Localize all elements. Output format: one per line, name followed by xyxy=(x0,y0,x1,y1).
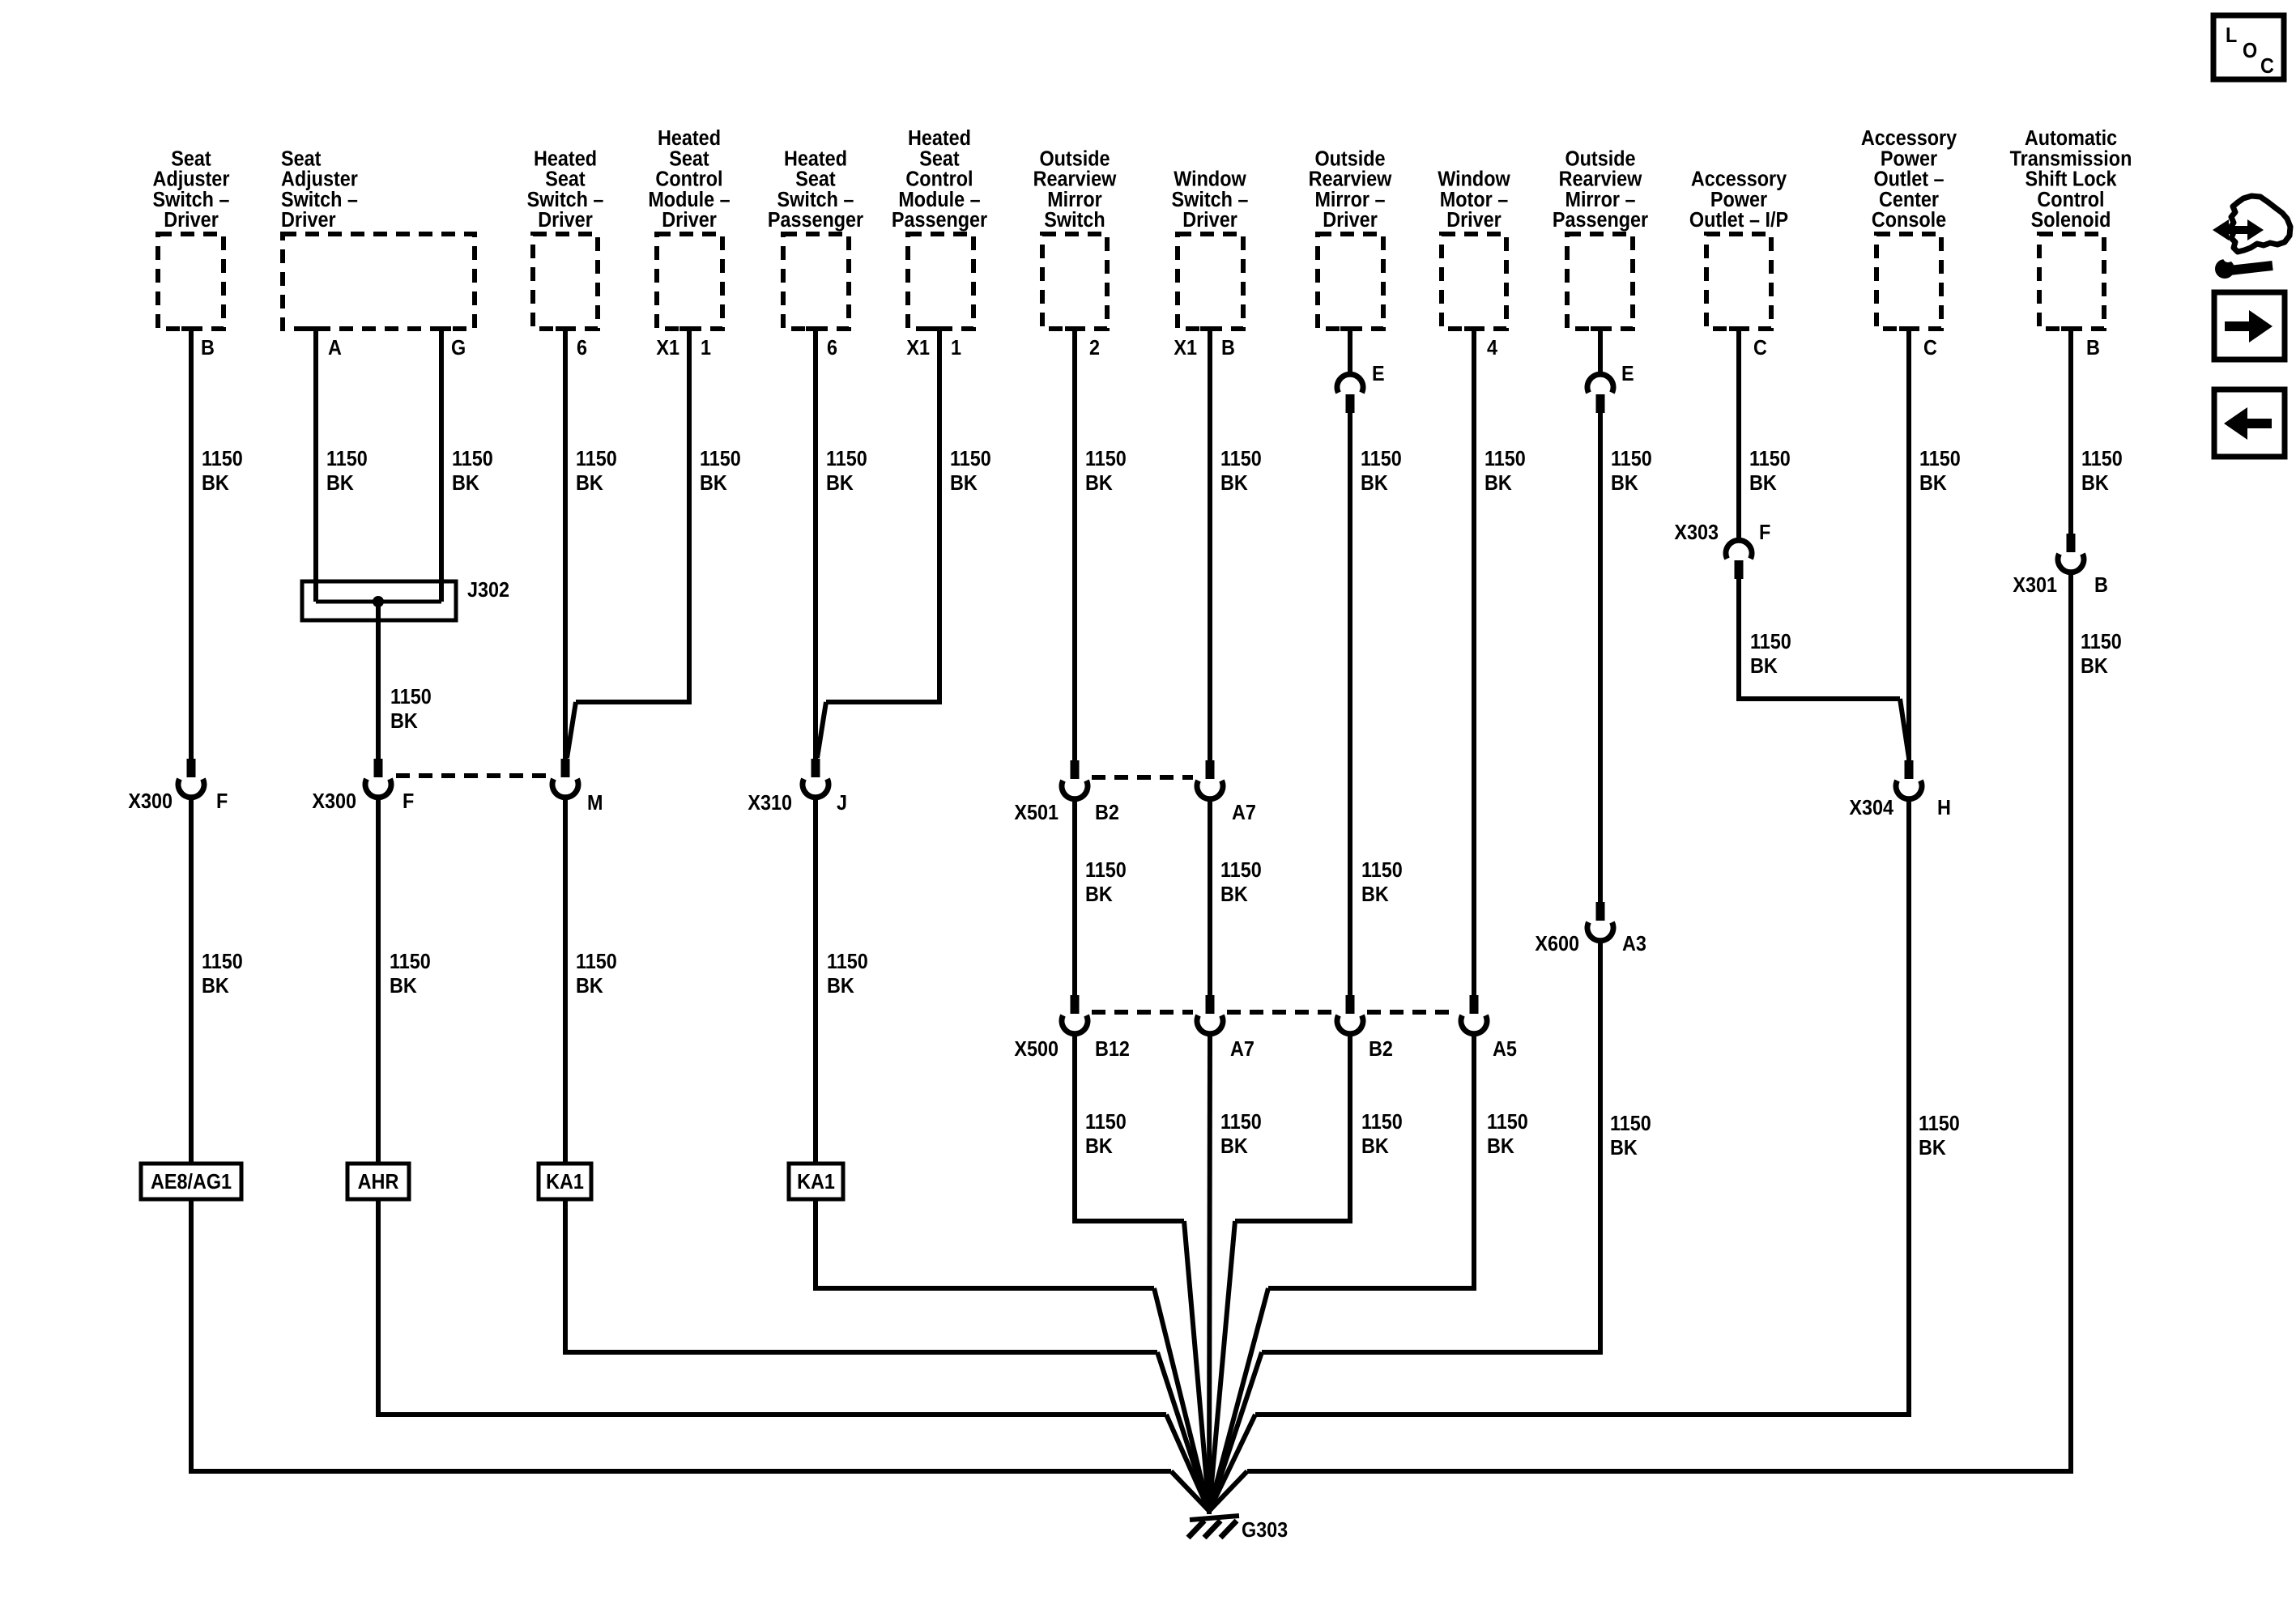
component title: Seat Adjuster Switch – Driver xyxy=(153,147,230,232)
svg-text:1150: 1150 xyxy=(1085,1111,1127,1134)
svg-text:Transmission: Transmission xyxy=(2010,147,2132,170)
svg-text:BK: BK xyxy=(1220,883,1248,906)
component title: Heated Seat Control Module – Passenger xyxy=(892,127,988,232)
connector X300 pin F (driver seat adjuster B) xyxy=(187,759,196,777)
svg-text:Motor –: Motor – xyxy=(1440,189,1508,211)
wire: L4 left diagonal to G303 apex xyxy=(1171,1471,1209,1511)
legend icon: door outline xyxy=(2230,196,2290,252)
svg-text:Switch –: Switch – xyxy=(527,189,604,211)
svg-text:BK: BK xyxy=(700,472,727,495)
wire: L2 horizontal left segment xyxy=(563,1350,1157,1355)
svg-text:X501: X501 xyxy=(1014,802,1059,824)
legend icon: double-headed arrow xyxy=(2213,219,2264,240)
wire: X300 F down to AE8/AG1 xyxy=(189,797,194,1165)
svg-text:C: C xyxy=(1753,337,1767,360)
svg-text:1150: 1150 xyxy=(1220,1111,1262,1134)
ground G303 hatch 1 xyxy=(1188,1521,1204,1538)
Heated Seat Control Module - Passenger (box) xyxy=(908,234,973,329)
connector X301 pin B xyxy=(2067,534,2076,552)
connector X300 pin F (seat adjuster A/G) xyxy=(374,759,383,777)
wire: Window Switch Driver pin B down to X501 xyxy=(1208,328,1212,761)
svg-text:O: O xyxy=(2243,40,2257,62)
splice J302 junction dot xyxy=(373,596,384,607)
svg-text:1150: 1150 xyxy=(1749,448,1791,470)
Outside Rearview Mirror - Passenger (box) xyxy=(1567,234,1633,329)
component title: Seat Adjuster Switch – Driver xyxy=(281,147,358,232)
svg-text:BK: BK xyxy=(1485,472,1512,495)
svg-text:BK: BK xyxy=(1085,472,1113,495)
wire: HSCM Driver horizontal jog xyxy=(576,700,692,704)
svg-text:Adjuster: Adjuster xyxy=(281,168,358,191)
wire: E down to X500 B2 xyxy=(1348,406,1352,996)
svg-text:Outside: Outside xyxy=(1314,147,1385,170)
wire: HSCM Driver diagonal into M connector xyxy=(567,702,576,758)
inline harness label AE8/AG1 xyxy=(141,1164,241,1199)
svg-text:1150: 1150 xyxy=(390,951,431,973)
svg-text:Outside: Outside xyxy=(1565,147,1635,170)
svg-text:X600: X600 xyxy=(1535,933,1579,955)
wire: AE8/AG1 down to L4 corner xyxy=(189,1199,194,1471)
legend icon: wrench head xyxy=(2215,259,2234,279)
svg-text:Window: Window xyxy=(1174,168,1246,191)
svg-text:B2: B2 xyxy=(1369,1038,1393,1061)
wire: L4 right diagonal to G303 apex xyxy=(1209,1471,1247,1511)
svg-text:BK: BK xyxy=(827,975,854,998)
wire: X500 B2 down to staple corner xyxy=(1348,1033,1352,1221)
svg-text:BK: BK xyxy=(576,472,603,495)
svg-text:6: 6 xyxy=(827,337,837,360)
svg-text:BK: BK xyxy=(1361,472,1388,495)
wire: L1 horizontal left segment xyxy=(813,1286,1154,1291)
svg-text:Switch –: Switch – xyxy=(153,189,230,211)
component title: Outside Rearview Mirror – Passenger xyxy=(1553,147,1649,232)
svg-text:1150: 1150 xyxy=(326,448,368,470)
svg-text:Automatic: Automatic xyxy=(2025,127,2118,150)
wire: X303 branch diagonal into X304 xyxy=(1900,699,1909,758)
component title: Heated Seat Switch – Passenger xyxy=(768,147,864,232)
svg-text:Driver: Driver xyxy=(538,209,593,232)
svg-text:Accessory: Accessory xyxy=(1691,168,1787,191)
svg-text:Switch: Switch xyxy=(1044,209,1105,232)
svg-text:Solenoid: Solenoid xyxy=(2031,209,2111,232)
dashed connector mating line X500 A7..B2 xyxy=(1227,1010,1333,1015)
svg-text:G: G xyxy=(451,337,466,360)
svg-text:Seat: Seat xyxy=(545,168,585,191)
splice J302 internal bar xyxy=(316,600,441,604)
svg-text:BK: BK xyxy=(2081,472,2109,495)
component title: Accessory Power Outlet – I/P xyxy=(1689,168,1788,232)
wire: HSCM Passenger diagonal into X310 connector xyxy=(817,702,826,758)
wire: Outside Rearview Mirror Switch pin 2 down to X501 xyxy=(1072,328,1077,761)
svg-text:Rearview: Rearview xyxy=(1309,168,1392,191)
connector X310 pin J xyxy=(811,759,820,777)
svg-text:BK: BK xyxy=(202,975,229,998)
svg-text:E: E xyxy=(1372,363,1385,385)
back-reference arrow box xyxy=(2214,389,2285,457)
svg-text:Console: Console xyxy=(1872,209,1946,232)
svg-text:BK: BK xyxy=(1361,1135,1389,1158)
forward-reference arrow xyxy=(2225,310,2273,343)
svg-text:BK: BK xyxy=(390,975,417,998)
component title: Automatic Transmission Shift Lock Control Solenoid xyxy=(2010,127,2132,232)
svg-text:BK: BK xyxy=(1220,472,1248,495)
splice J302 (box) xyxy=(302,581,456,620)
svg-text:C: C xyxy=(2260,55,2274,78)
svg-text:BK: BK xyxy=(2081,655,2108,678)
Accessory Power Outlet - I/P (box) xyxy=(1706,234,1771,329)
svg-text:BK: BK xyxy=(1749,472,1777,495)
inline harness label AHR xyxy=(347,1164,409,1199)
component title: Window Switch – Driver xyxy=(1172,168,1249,232)
svg-text:1150: 1150 xyxy=(1610,1113,1651,1135)
svg-text:Mirror –: Mirror – xyxy=(1314,189,1385,211)
wire: L2 horizontal right segment xyxy=(1262,1350,1603,1355)
svg-text:Control: Control xyxy=(2037,189,2104,211)
svg-text:6: 6 xyxy=(577,337,587,360)
wire: X501 B2 down to X500 B12 xyxy=(1072,798,1077,996)
svg-text:Window: Window xyxy=(1438,168,1510,191)
wire: staple left diagonal to G303 apex xyxy=(1184,1221,1209,1511)
svg-text:Seat: Seat xyxy=(919,147,959,170)
wire: E down to X600 xyxy=(1598,406,1603,903)
wire: L2 right diagonal to G303 apex xyxy=(1209,1352,1262,1511)
component title: Accessory Power Outlet – Center Console xyxy=(1861,127,1957,232)
svg-text:BK: BK xyxy=(1610,1137,1638,1160)
wire: KA1 down to L2 corner xyxy=(563,1199,568,1352)
svg-text:Seat: Seat xyxy=(795,168,835,191)
svg-text:BK: BK xyxy=(326,472,354,495)
svg-text:F: F xyxy=(216,790,228,813)
svg-text:BK: BK xyxy=(1919,1137,1946,1160)
svg-text:Mirror: Mirror xyxy=(1047,189,1102,211)
component title: Outside Rearview Mirror Switch xyxy=(1033,147,1117,232)
svg-text:Adjuster: Adjuster xyxy=(153,168,230,191)
svg-text:BK: BK xyxy=(1487,1135,1514,1158)
svg-text:Switch –: Switch – xyxy=(777,189,854,211)
wire: L1 left diagonal to G303 apex xyxy=(1154,1288,1209,1511)
connector X500 pin B12 xyxy=(1071,995,1080,1014)
wire: APO Center Console pin C down to X304 xyxy=(1906,328,1911,761)
svg-text:1150: 1150 xyxy=(202,951,243,973)
svg-text:A: A xyxy=(328,337,342,360)
legend icon: wrench handle xyxy=(2230,266,2273,270)
svg-text:1150: 1150 xyxy=(1919,448,1961,470)
svg-text:Passenger: Passenger xyxy=(768,209,864,232)
svg-text:Outside: Outside xyxy=(1039,147,1110,170)
svg-text:1150: 1150 xyxy=(700,448,741,470)
wire: KA1 down to L1 corner xyxy=(813,1199,818,1288)
svg-text:X1: X1 xyxy=(906,337,930,360)
svg-text:1150: 1150 xyxy=(1220,448,1262,470)
svg-text:BK: BK xyxy=(1085,1135,1113,1158)
Seat Adjuster Switch - Driver wide (box) xyxy=(283,234,475,329)
wire: L3 horizontal left segment xyxy=(376,1412,1166,1417)
svg-text:B: B xyxy=(201,337,215,360)
LOC reference box xyxy=(2213,15,2284,79)
wire: L3 right diagonal to G303 apex xyxy=(1209,1415,1255,1511)
svg-text:1150: 1150 xyxy=(576,951,617,973)
wire: X300 F down to AHR xyxy=(376,797,381,1165)
Window Switch - Driver (box) xyxy=(1178,234,1243,329)
wire: X500 A5 down to L1 corner xyxy=(1472,1033,1476,1288)
svg-text:1150: 1150 xyxy=(1220,859,1262,882)
wire: J302 down to X300 xyxy=(376,602,381,760)
svg-text:Module –: Module – xyxy=(648,189,730,211)
wire: HSCM Passenger pin 1 down xyxy=(937,328,942,702)
svg-text:A7: A7 xyxy=(1232,802,1256,824)
svg-text:X301: X301 xyxy=(2013,574,2057,597)
svg-text:Switch –: Switch – xyxy=(281,189,358,211)
svg-text:1150: 1150 xyxy=(1085,448,1127,470)
svg-text:Rearview: Rearview xyxy=(1559,168,1642,191)
Heated Seat Control Module - Driver (box) xyxy=(657,234,722,329)
dashed connector mating line X500 B12..A7 xyxy=(1092,1010,1193,1015)
svg-text:AHR: AHR xyxy=(358,1171,399,1194)
forward-reference arrow box xyxy=(2214,292,2285,360)
Outside Rearview Mirror Switch (box) xyxy=(1042,234,1107,329)
wire: L3 left diagonal to G303 apex xyxy=(1166,1415,1209,1511)
svg-text:KA1: KA1 xyxy=(797,1171,835,1194)
svg-text:1150: 1150 xyxy=(827,951,868,973)
svg-text:Shift Lock: Shift Lock xyxy=(2025,168,2116,191)
svg-text:BK: BK xyxy=(576,975,603,998)
svg-text:A7: A7 xyxy=(1230,1038,1254,1061)
wire: X304 down to L3 corner xyxy=(1906,798,1911,1415)
wire: L3 horizontal right segment xyxy=(1255,1412,1911,1417)
svg-text:1150: 1150 xyxy=(1361,1111,1403,1134)
Window Motor - Driver (box) xyxy=(1442,234,1506,329)
wire: L1 horizontal right segment xyxy=(1268,1286,1476,1291)
svg-text:1150: 1150 xyxy=(1611,448,1652,470)
wire: Outside Rearview Mirror Driver stub to E connector xyxy=(1348,328,1352,375)
svg-text:A3: A3 xyxy=(1622,933,1646,955)
svg-text:1150: 1150 xyxy=(1361,859,1403,882)
svg-text:G303: G303 xyxy=(1242,1519,1288,1542)
connector X600 pin A3 xyxy=(1596,902,1605,921)
svg-text:X304: X304 xyxy=(1849,797,1893,819)
component title: Heated Seat Switch – Driver xyxy=(527,147,604,232)
svg-text:X303: X303 xyxy=(1674,521,1719,544)
svg-text:X300: X300 xyxy=(312,790,356,813)
connector M (heated seat switch driver) xyxy=(561,759,570,777)
svg-text:1150: 1150 xyxy=(1487,1111,1528,1134)
svg-text:BK: BK xyxy=(1085,883,1113,906)
svg-text:Mirror –: Mirror – xyxy=(1565,189,1635,211)
svg-text:E: E xyxy=(1621,363,1634,385)
svg-text:2: 2 xyxy=(1089,337,1100,360)
svg-text:1150: 1150 xyxy=(1750,631,1791,653)
legend icon: wrench jaw notch xyxy=(2223,253,2233,262)
svg-text:H: H xyxy=(1937,797,1951,819)
svg-text:Passenger: Passenger xyxy=(892,209,988,232)
component title: Outside Rearview Mirror – Driver xyxy=(1309,147,1392,232)
svg-text:1150: 1150 xyxy=(1919,1113,1960,1135)
svg-text:BK: BK xyxy=(1361,883,1389,906)
wire: X501 A7 down to X500 A7 xyxy=(1208,798,1212,996)
svg-text:Module –: Module – xyxy=(898,189,980,211)
component title: Heated Seat Control Module – Driver xyxy=(648,127,730,232)
connector X501 pin B2 xyxy=(1071,760,1080,779)
wire: Heated Seat Switch Passenger pin 6 down to X310 xyxy=(813,328,818,760)
connector X500 pin A5 xyxy=(1470,995,1479,1014)
connector X500 pin A7 xyxy=(1206,995,1215,1014)
svg-text:Power: Power xyxy=(1710,189,1768,211)
wire: staple horizontal left xyxy=(1072,1219,1184,1223)
inline harness label KA1 (driver) xyxy=(539,1164,591,1199)
wire: L1 right diagonal to G303 apex xyxy=(1209,1288,1268,1511)
svg-text:B2: B2 xyxy=(1095,802,1119,824)
svg-text:Control: Control xyxy=(905,168,973,191)
Accessory Power Outlet - Center Console (box) xyxy=(1876,234,1941,329)
svg-text:B12: B12 xyxy=(1095,1038,1130,1061)
back-reference arrow xyxy=(2224,407,2272,440)
dashed connector mating line X300..M xyxy=(396,773,548,778)
Outside Rearview Mirror - Driver (box) xyxy=(1318,234,1383,329)
ground G303 hatch 2 xyxy=(1204,1521,1220,1538)
svg-text:X310: X310 xyxy=(748,792,792,815)
Heated Seat Switch - Passenger (box) xyxy=(783,234,849,329)
wire: staple horizontal right xyxy=(1235,1219,1352,1223)
svg-text:Power: Power xyxy=(1881,147,1938,170)
svg-text:Driver: Driver xyxy=(164,209,219,232)
svg-text:1150: 1150 xyxy=(202,448,243,470)
svg-text:Outlet – I/P: Outlet – I/P xyxy=(1689,209,1788,232)
svg-text:AE8/AG1: AE8/AG1 xyxy=(151,1171,232,1194)
wire: Seat Adjuster Switch pin A down to J302 xyxy=(313,328,318,602)
svg-text:Heated: Heated xyxy=(534,147,597,170)
wire: Seat Adjuster Switch pin G down to J302 xyxy=(439,328,444,602)
svg-text:Driver: Driver xyxy=(1323,209,1378,232)
svg-text:Driver: Driver xyxy=(662,209,717,232)
svg-text:4: 4 xyxy=(1487,337,1497,360)
svg-text:1: 1 xyxy=(951,337,961,360)
svg-text:Driver: Driver xyxy=(281,209,336,232)
wire: X500 A7 straight down to G303 apex xyxy=(1209,1033,1210,1514)
svg-text:1: 1 xyxy=(701,337,711,360)
wire: X303 branch horizontal xyxy=(1736,696,1900,701)
svg-text:Rearview: Rearview xyxy=(1033,168,1117,191)
svg-text:BK: BK xyxy=(390,710,418,733)
wire: AHR down to L3 corner xyxy=(376,1199,381,1415)
svg-text:Outlet –: Outlet – xyxy=(1873,168,1944,191)
connector pin E (ORM Driver) xyxy=(1346,394,1355,413)
wire: staple right diagonal to G303 apex xyxy=(1209,1221,1235,1511)
Seat Adjuster Switch - Driver (box) xyxy=(158,234,224,329)
svg-text:BK: BK xyxy=(452,472,479,495)
wire: Accessory Power Outlet I/P pin C down to X303 xyxy=(1736,328,1741,539)
Heated Seat Switch - Driver (box) xyxy=(533,234,598,329)
wire: Heated Seat Switch Driver pin 6 down to M xyxy=(563,328,568,760)
wire: ORM Passenger stub to E connector xyxy=(1598,328,1603,375)
svg-text:BK: BK xyxy=(826,472,854,495)
ground G303 hatch 3 xyxy=(1220,1521,1237,1538)
wire: HSCM Passenger horizontal jog xyxy=(826,700,942,704)
svg-text:1150: 1150 xyxy=(576,448,617,470)
svg-text:BK: BK xyxy=(950,472,978,495)
component title: Window Motor – Driver xyxy=(1438,168,1510,232)
svg-text:Heated: Heated xyxy=(658,127,721,150)
svg-text:1150: 1150 xyxy=(1085,859,1127,882)
svg-text:KA1: KA1 xyxy=(546,1171,584,1194)
connector pin E (ORM Passenger) xyxy=(1596,394,1605,413)
svg-text:J: J xyxy=(837,792,847,815)
svg-text:X1: X1 xyxy=(1174,337,1197,360)
wire: M down to KA1 xyxy=(563,797,568,1165)
wire: HSCM Driver pin 1 down xyxy=(687,328,692,702)
wire: X301 down to L4 corner xyxy=(2068,572,2073,1471)
Automatic Transmission Shift Lock Control Solenoid (box) xyxy=(2039,234,2104,329)
svg-text:1150: 1150 xyxy=(1361,448,1402,470)
svg-text:Heated: Heated xyxy=(784,147,847,170)
connector X304 pin H xyxy=(1905,760,1914,779)
svg-text:X1: X1 xyxy=(656,337,679,360)
wire: Seat Adjuster Switch Driver pin B down to X300 xyxy=(189,328,194,760)
svg-text:Passenger: Passenger xyxy=(1553,209,1649,232)
wire: L2 left diagonal to G303 apex xyxy=(1157,1352,1209,1511)
svg-text:1150: 1150 xyxy=(452,448,493,470)
wire: X500 B12 down to staple corner xyxy=(1072,1033,1077,1221)
svg-text:B: B xyxy=(2086,337,2100,360)
svg-text:Heated: Heated xyxy=(908,127,971,150)
svg-text:A5: A5 xyxy=(1493,1038,1517,1061)
svg-text:BK: BK xyxy=(202,472,229,495)
svg-text:Driver: Driver xyxy=(1182,209,1237,232)
svg-text:1150: 1150 xyxy=(950,448,991,470)
svg-text:Seat: Seat xyxy=(281,147,321,170)
wire: L4 horizontal left segment xyxy=(189,1469,1171,1474)
wire: X303 down to corner xyxy=(1736,572,1741,699)
svg-text:B: B xyxy=(2094,574,2108,597)
svg-text:BK: BK xyxy=(1220,1135,1248,1158)
wire: Window Motor Driver pin 4 down to X500 A5 xyxy=(1472,328,1476,996)
svg-text:BK: BK xyxy=(1919,472,1947,495)
svg-text:1150: 1150 xyxy=(390,686,432,709)
ground G303 symbol bar xyxy=(1190,1516,1239,1520)
svg-text:Seat: Seat xyxy=(171,147,211,170)
wire: X600 down to L2 corner xyxy=(1598,940,1603,1352)
svg-text:C: C xyxy=(1923,337,1937,360)
svg-text:M: M xyxy=(587,792,603,815)
inline harness label KA1 (passenger) xyxy=(789,1164,843,1199)
connector X303 pin F xyxy=(1735,560,1744,579)
svg-text:L: L xyxy=(2226,24,2237,47)
dashed connector mating line X501 B2..A7 xyxy=(1092,775,1193,780)
svg-text:J302: J302 xyxy=(467,579,509,602)
svg-text:1150: 1150 xyxy=(826,448,867,470)
svg-text:Switch –: Switch – xyxy=(1172,189,1249,211)
svg-text:Seat: Seat xyxy=(669,147,709,170)
svg-text:F: F xyxy=(1759,521,1770,544)
svg-text:1150: 1150 xyxy=(2081,631,2122,653)
svg-text:Center: Center xyxy=(1879,189,1939,211)
svg-text:B: B xyxy=(1221,337,1235,360)
connector X501 pin A7 xyxy=(1206,760,1215,779)
connector X500 pin B2 xyxy=(1346,995,1355,1014)
svg-text:Driver: Driver xyxy=(1446,209,1502,232)
wire: ATSLC Solenoid pin B down to X301 xyxy=(2068,328,2073,534)
svg-text:1150: 1150 xyxy=(2081,448,2123,470)
svg-text:1150: 1150 xyxy=(1485,448,1526,470)
dashed connector mating line X500 B2..A5 xyxy=(1367,1010,1457,1015)
wire: L4 horizontal right segment xyxy=(1247,1469,2073,1474)
svg-text:Accessory: Accessory xyxy=(1861,127,1957,150)
svg-text:F: F xyxy=(403,790,414,813)
svg-text:BK: BK xyxy=(1611,472,1638,495)
wire: X310 J down to KA1 xyxy=(813,797,818,1165)
svg-text:BK: BK xyxy=(1750,655,1778,678)
svg-text:Control: Control xyxy=(655,168,722,191)
svg-text:X500: X500 xyxy=(1014,1038,1059,1061)
